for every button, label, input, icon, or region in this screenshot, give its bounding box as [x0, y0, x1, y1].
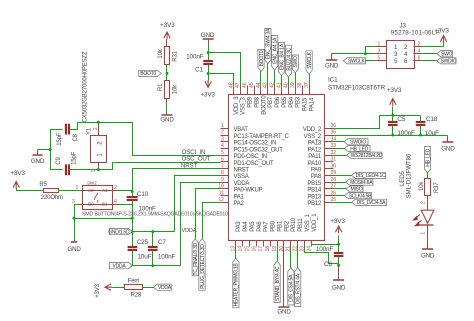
svg-text:VDD_2: VDD_2: [303, 127, 322, 133]
svg-text:PB1: PB1: [277, 220, 283, 232]
J3 pin 1 stub: [375, 46, 387, 48]
pin 10 PA0-WKUP stub: [221, 188, 229, 190]
svg-text:+3V3: +3V3: [95, 283, 101, 297]
net flag SWCLK at J3: [343, 58, 365, 64]
IC U1 STM32F103C8T6TR body: [229, 95, 325, 241]
svg-text:C1: C1: [195, 67, 203, 74]
svg-text:PA12: PA12: [308, 147, 322, 153]
net flag HB_LED: [345, 145, 371, 151]
svg-text:1: 1: [421, 232, 427, 235]
pin 5 PD0-OSC_IN stub: [221, 155, 229, 157]
wire net ENC_B/4.1A: [281, 76, 283, 86]
svg-text:DIS_RST/4.4A: DIS_RST/4.4A: [296, 273, 302, 304]
ground R1: [162, 114, 173, 116]
J3 pin 6 stub: [414, 60, 422, 62]
svg-text:5: 5: [221, 150, 224, 156]
svg-text:Y1: Y1: [86, 127, 92, 135]
svg-text:PB2: PB2: [284, 220, 290, 232]
svg-text:+3V3: +3V3: [434, 28, 449, 35]
pin 25 PB12 stub: [325, 202, 334, 204]
junction NRST SW2 C10: [131, 190, 134, 193]
pin 47 VSS_3 stub: [240, 86, 242, 95]
supply +3V3 below C1: [205, 80, 211, 88]
svg-text:10uF: 10uF: [137, 254, 151, 261]
svg-text:PA5: PA5: [250, 221, 256, 232]
wire +3V3 to R5: [17, 189, 44, 191]
svg-text:R31: R31: [173, 50, 179, 61]
svg-text:14: 14: [238, 246, 244, 252]
wire PB2 pin20 to GND: [283, 247, 285, 307]
svg-text:A0: A0: [88, 188, 94, 194]
svg-text:2: 2: [114, 185, 117, 191]
crystal pin 2 lead: [98, 123, 100, 136]
svg-text:DIS_LED/4.1C: DIS_LED/4.1C: [356, 173, 386, 179]
svg-text:4: 4: [221, 143, 224, 149]
svg-text:PA7: PA7: [264, 221, 270, 232]
pin 2 PC13-TAMPER-RT_C stub: [221, 135, 229, 137]
svg-text:VDDA: VDDA: [182, 228, 197, 234]
net flag SWO: [437, 51, 453, 57]
svg-text:11: 11: [219, 190, 224, 196]
svg-text:15: 15: [244, 246, 250, 252]
svg-text:PD0-OSC_IN: PD0-OSC_IN: [234, 154, 268, 160]
svg-text:C10: C10: [137, 191, 149, 198]
svg-text:J3: J3: [399, 23, 406, 30]
svg-text:18: 18: [265, 246, 271, 252]
net flag WS2812B/4.2D: [347, 152, 382, 158]
svg-text:B1: B1: [102, 201, 108, 207]
svg-text:ENC_B/4.1A: ENC_B/4.1A: [279, 43, 285, 70]
capacitor C5: [392, 116, 394, 122]
svg-text:SWDIO: SWDIO: [350, 140, 366, 146]
svg-text:R37: R37: [434, 182, 440, 193]
crystal Y1 body: [91, 136, 107, 163]
junction crystal bottom: [97, 168, 100, 171]
svg-text:SWCLK: SWCLK: [307, 51, 313, 68]
junction C7 top: [151, 230, 154, 233]
svg-text:PA10: PA10: [308, 161, 322, 167]
resistor R28 Ferri: [125, 285, 143, 290]
svg-text:PA8: PA8: [311, 174, 322, 180]
svg-text:PLUG_DETECT/3.3D: PLUG_DETECT/3.3D: [200, 244, 206, 289]
pin 23 VSS_1 stub: [304, 241, 306, 247]
svg-text:VDDA: VDDA: [158, 285, 172, 291]
svg-text:STAND_BY/4.4C: STAND_BY/4.4C: [275, 266, 281, 301]
wire crystal bottom to OSC_OUT: [99, 163, 221, 170]
wire VSS_2 pin35 GND rail: [334, 135, 448, 137]
wire VDDA pin9: [181, 183, 221, 266]
wire HB_LED to R37: [427, 173, 429, 179]
svg-text:C18: C18: [426, 116, 438, 123]
wire C1 bottom to pin 48: [209, 74, 234, 86]
svg-text:7: 7: [221, 163, 224, 169]
svg-text:GND: GND: [201, 32, 215, 39]
net flag HEATER_PWM/3.1B: [233, 258, 239, 308]
svg-text:PA14: PA14: [309, 97, 315, 111]
resistor R5: [44, 189, 59, 193]
net flag STAND_BY/4.4C: [274, 261, 280, 303]
wire net ENC_A/4.1A: [274, 71, 276, 86]
svg-text:PA13: PA13: [308, 141, 322, 147]
ground C6: [338, 266, 340, 280]
wire net ENC_SW/4.3A: [267, 64, 269, 86]
svg-text:VBAT: VBAT: [234, 127, 249, 133]
svg-text:MOSI/4.6A: MOSI/4.6A: [350, 180, 373, 186]
svg-text:35: 35: [331, 130, 337, 136]
wire SW2 ground cross link: [75, 218, 133, 220]
pin 36 VDD_2 stub: [325, 128, 334, 130]
svg-text:IC1: IC1: [328, 77, 338, 84]
svg-text:VDDA: VDDA: [234, 181, 250, 187]
svg-text:PB7: PB7: [268, 96, 274, 108]
svg-text:30: 30: [331, 163, 337, 169]
wire VDDA rail: [133, 265, 181, 267]
net flag SWDIO at J3: [437, 58, 456, 64]
junction C5 top: [391, 114, 394, 117]
svg-text:PC13-TAMPER-RT_C: PC13-TAMPER-RT_C: [234, 134, 290, 140]
svg-text:GND: GND: [325, 63, 339, 70]
svg-text:PB6: PB6: [275, 96, 281, 108]
svg-text:VSSA: VSSA: [234, 174, 249, 180]
capacitor C10: [132, 192, 134, 197]
svg-text:SWO: SWO: [441, 52, 453, 58]
capacitor C25: [132, 232, 134, 247]
svg-text:+3V3: +3V3: [387, 87, 402, 94]
svg-text:SWDIO: SWDIO: [441, 59, 457, 65]
net flag TC_FINAL/3.3D: [192, 239, 198, 276]
pin 13 PA3 stub: [235, 241, 237, 247]
svg-text:MISO: MISO: [351, 187, 363, 193]
svg-text:C8: C8: [73, 133, 79, 141]
pin 37 PA14 stub: [309, 86, 311, 95]
wire R28 to VDDA flag: [143, 287, 154, 289]
svg-text:VSS_2: VSS_2: [304, 134, 322, 140]
svg-text:SWO: SWO: [293, 56, 299, 68]
wire J3 pin4 to SWO: [422, 53, 437, 55]
wire GND rail: [133, 231, 175, 233]
pin 29 PA8 stub: [325, 175, 334, 177]
pin 40 PB4 stub: [288, 86, 290, 95]
net flag VDDA at rail: [110, 263, 133, 269]
junction C1 top: [207, 51, 210, 54]
svg-text:PB12: PB12: [307, 201, 322, 207]
pin 14 PA4 stub: [242, 241, 244, 247]
junction C1 bottom: [207, 72, 210, 75]
pin 19 PB1 stub: [277, 241, 279, 247]
svg-text:PC14-OSC32_IN: PC14-OSC32_IN: [234, 141, 277, 147]
svg-text:A1: A1: [102, 188, 108, 194]
wire net SWDIO: [334, 141, 345, 143]
wire net BOOT0: [260, 72, 262, 86]
wire J3 pin3 to GND: [332, 53, 375, 55]
pin 32 PA11 stub: [325, 155, 334, 157]
svg-text:GND: GND: [31, 158, 45, 165]
wire C1 bottom: [208, 65, 210, 81]
svg-text:8: 8: [221, 170, 224, 176]
net flag BOOT0: [139, 70, 162, 76]
svg-text:HB_LED: HB_LED: [350, 146, 369, 152]
wire PA2 pin12 to PLUG_DETECT: [203, 203, 221, 239]
svg-text:31: 31: [331, 157, 337, 163]
svg-text:SMD BUTTON(4P-S-2X6.2X1.9MM-SK: SMD BUTTON(4P-S-2X6.2X1.9MM-SKQGADE010)-…: [82, 212, 228, 218]
junction C10 GND rail: [131, 230, 134, 233]
svg-text:PA15: PA15: [303, 97, 309, 111]
junction GND tap: [49, 148, 52, 151]
J3 pin 4 stub: [414, 53, 422, 55]
junction J3 pin3: [364, 52, 367, 55]
pin 46 PB9 stub: [247, 86, 249, 95]
svg-text:220Ohm: 220Ohm: [41, 195, 63, 201]
svg-text:B0: B0: [88, 201, 94, 207]
net flag SCLK/4.5B: [345, 193, 372, 199]
ground J3: [331, 54, 333, 60]
svg-text:10k: 10k: [419, 181, 425, 191]
net flag VDDA at R28: [153, 284, 171, 290]
net flag BOOT0: [258, 49, 264, 71]
J3 pin 5 stub: [375, 60, 387, 62]
J3 pin 3 stub: [375, 53, 387, 55]
pin 24 VDD_1 stub: [311, 241, 313, 247]
svg-text:GND: GND: [421, 252, 435, 259]
svg-text:SWCLK: SWCLK: [348, 59, 365, 65]
svg-text:24: 24: [306, 246, 312, 252]
supply +3V3 right: [390, 99, 396, 107]
SW2 pole line B: [83, 204, 113, 206]
LED LED5: [421, 210, 434, 223]
svg-text:100nF: 100nF: [397, 130, 415, 137]
pin 39 PB3 stub: [295, 86, 297, 95]
svg-text:PB14: PB14: [307, 188, 322, 194]
pin 27 PB14 stub: [325, 188, 334, 190]
svg-text:3: 3: [221, 137, 224, 143]
wire GND tap: [38, 149, 51, 151]
wire VDD_2 pin36 to +3V3 rail: [334, 116, 421, 129]
svg-text:GND: GND: [441, 145, 455, 152]
svg-text:NRST: NRST: [234, 168, 250, 174]
ground LED5: [422, 248, 433, 250]
wire net SWO: [295, 73, 297, 86]
svg-text:38: 38: [297, 82, 303, 88]
junction C5 bottom: [391, 134, 394, 137]
svg-text:C5: C5: [397, 116, 405, 123]
pin 43 PB7 stub: [267, 86, 269, 95]
svg-text:R5: R5: [39, 182, 47, 188]
wire +3V3 to R28: [113, 287, 125, 289]
wire R1 to GND: [166, 99, 168, 103]
wire VDD_1 pin24 to +3V3: [312, 245, 339, 247]
pin 20 PB2 stub: [283, 241, 285, 247]
svg-text:PA3: PA3: [236, 221, 242, 232]
svg-text:4: 4: [114, 199, 117, 205]
svg-text:GND: GND: [160, 116, 174, 123]
svg-text:BOOT0: BOOT0: [259, 50, 265, 66]
net flag SWCLK: [306, 51, 312, 75]
net flag ENC_B/4.1A: [279, 42, 285, 75]
svg-text:GND: GND: [67, 246, 81, 253]
svg-text:PD1-OSC_OUT: PD1-OSC_OUT: [234, 161, 275, 167]
svg-text:100nF: 100nF: [316, 246, 334, 253]
svg-text:10uF: 10uF: [425, 130, 439, 137]
svg-text:9: 9: [221, 177, 224, 183]
net flag ENC_SW/4.3A: [265, 28, 271, 63]
svg-text:SCLK/4.5B: SCLK/4.5B: [349, 193, 372, 199]
svg-text:PA6: PA6: [257, 221, 263, 232]
wire net MISO: [334, 188, 347, 190]
wire net WS2812B/4.2D: [334, 155, 347, 157]
junction C7 bottom: [151, 264, 154, 267]
svg-text:GND: GND: [277, 309, 291, 316]
pin 42 PB6 stub: [274, 86, 276, 95]
pin 18 PB0 stub: [270, 241, 272, 247]
svg-text:45: 45: [249, 82, 255, 88]
junction crystal top: [97, 121, 100, 124]
pin 1 of LED5: [427, 225, 429, 249]
pin 12 PA2 stub: [221, 202, 229, 204]
wire STAND_BY pin19: [277, 247, 279, 261]
svg-text:PA9: PA9: [311, 168, 322, 174]
wire DIS_RST pin22: [297, 247, 299, 268]
svg-text:100nF: 100nF: [186, 53, 204, 60]
wire VSS_1 pin23 to GND: [305, 247, 339, 264]
junction SW2 ground node right: [131, 217, 134, 220]
pin 2 of LED5: [427, 196, 429, 211]
svg-text:ENC_A/4.1A: ENC_A/4.1A: [273, 37, 279, 64]
svg-text:10k: 10k: [173, 84, 179, 94]
wire DIS_CS pin21: [290, 247, 292, 268]
svg-text:17: 17: [258, 246, 264, 252]
net flag MOSI/4.6A: [346, 179, 374, 185]
svg-text:PA2: PA2: [234, 201, 245, 207]
svg-text:DIS_CS/4.5A: DIS_CS/4.5A: [289, 274, 295, 302]
svg-text:PB3: PB3: [296, 96, 302, 108]
resistor R1: [165, 81, 170, 99]
net flag GND/1.5D: [110, 229, 133, 235]
svg-text:28: 28: [331, 177, 337, 183]
junction C18 bottom: [419, 134, 422, 137]
svg-text:+3V3: +3V3: [330, 218, 345, 225]
svg-text:Ferri: Ferri: [128, 279, 140, 285]
wire C1 top to pin 47: [209, 53, 241, 86]
LED5 emission arrows: [415, 215, 421, 224]
pin 38 PA15 stub: [302, 86, 304, 95]
svg-text:16: 16: [251, 246, 257, 252]
pin 48 VDD_3 stub: [233, 86, 235, 95]
net flag SWDIO: [344, 139, 368, 145]
wire J3 pin1 to pin3: [366, 47, 375, 54]
svg-text:R1: R1: [158, 83, 164, 91]
svg-text:VDD_3: VDD_3: [234, 96, 240, 115]
capacitor C18: [420, 116, 422, 122]
svg-text:2: 2: [418, 41, 421, 47]
svg-text:ENC_SW/4.3A: ENC_SW/4.3A: [266, 28, 272, 59]
svg-text:PA0-WKUP: PA0-WKUP: [234, 188, 263, 194]
pin 41 PB5 stub: [281, 86, 283, 95]
pin 34 PA13 stub: [325, 141, 334, 143]
net flag DIS_D/C/4.5A: [352, 199, 387, 205]
net flag SWO: [292, 55, 298, 73]
SW2 pin 4 wire to C10 column: [113, 204, 119, 206]
svg-text:CX5032GB27000H0PESZZ: CX5032GB27000H0PESZZ: [83, 51, 89, 123]
junction C6 bottom: [337, 264, 340, 267]
svg-text:BUZZ/4.3C: BUZZ/4.3C: [286, 47, 292, 70]
svg-text:C9: C9: [56, 157, 62, 165]
pin 31 PA10 stub: [325, 161, 334, 163]
pin 8 VSSA stub: [221, 175, 229, 177]
svg-text:PA4: PA4: [243, 221, 249, 232]
connector J3 body: [387, 41, 415, 69]
SW2 pole line A: [83, 190, 113, 192]
wire R5 to SW2: [59, 190, 83, 192]
svg-text:15pF: 15pF: [71, 151, 77, 165]
pin 44 BOOT0 stub: [260, 86, 262, 95]
svg-text:PB15: PB15: [307, 181, 322, 187]
svg-text:6: 6: [418, 56, 421, 62]
net flag HB_LED at LED: [425, 147, 431, 174]
pin 33 PA12 stub: [325, 148, 334, 150]
svg-text:10k: 10k: [158, 48, 164, 58]
junction BOOT0 node: [166, 72, 169, 75]
pin 6 PD1-OSC_OUT stub: [221, 161, 229, 163]
svg-text:SW2: SW2: [87, 180, 97, 185]
svg-text:STM32F103C8T6TR: STM32F103C8T6TR: [328, 85, 386, 92]
svg-text:WS2812B/4.2D: WS2812B/4.2D: [351, 153, 383, 159]
wire C8 right to crystal top: [70, 123, 99, 130]
svg-text:BOOT0: BOOT0: [140, 71, 156, 77]
svg-text:1: 1: [221, 123, 224, 129]
wire R31 to R1: [166, 65, 168, 81]
wire VSSA pin8 to GND rail: [175, 176, 221, 232]
svg-text:5: 5: [378, 56, 381, 62]
svg-text:BOOT0: BOOT0: [261, 95, 267, 115]
wire net SCLK/4.5B: [334, 195, 345, 197]
svg-text:NRST: NRST: [181, 162, 198, 169]
pin 30 PA9 stub: [325, 168, 334, 170]
svg-text:PB5: PB5: [282, 96, 288, 108]
pin 26 PB13 stub: [325, 195, 334, 197]
svg-text:PB8: PB8: [254, 96, 260, 108]
svg-text:+3V3: +3V3: [160, 22, 175, 29]
resistor R31: [165, 47, 170, 65]
svg-text:PB11: PB11: [298, 218, 304, 232]
svg-text:2: 2: [93, 127, 99, 130]
ground crystal: [37, 150, 39, 155]
svg-text:GND: GND: [332, 284, 346, 291]
net flag ENC_A/4.1A: [272, 35, 278, 70]
svg-text:DIS_D/C/4.5A: DIS_D/C/4.5A: [357, 200, 386, 206]
svg-text:PB9: PB9: [248, 96, 254, 108]
svg-text:R28: R28: [131, 293, 142, 299]
wire PA0 pin10 to TC_FINAL: [196, 189, 221, 239]
wire C8 left: [51, 130, 63, 170]
svg-text:VDDA: VDDA: [113, 264, 127, 270]
svg-text:95278-101-06LF: 95278-101-06LF: [391, 30, 440, 37]
svg-text:15pF: 15pF: [57, 132, 63, 146]
net flag DIS_RST/4.4A: [295, 268, 301, 307]
switch SW2 body: [83, 186, 113, 210]
svg-text:2: 2: [221, 130, 224, 136]
svg-text:PA11: PA11: [308, 154, 322, 160]
wire net SWCLK: [309, 75, 311, 86]
capacitor C9: [65, 164, 67, 175]
svg-text:PB13: PB13: [307, 194, 322, 200]
net flag BUZZ/4.3C: [285, 45, 291, 77]
pin 3 PC14-OSC32_IN stub: [221, 141, 229, 143]
svg-text:PB10: PB10: [291, 217, 297, 232]
svg-text:HEATER_PWM/3.1B: HEATER_PWM/3.1B: [234, 263, 240, 307]
SW2 pin 3 wire: [79, 204, 83, 206]
pin 16 PA6 stub: [256, 241, 258, 247]
net flag DIS_CS/4.5A: [288, 268, 294, 305]
